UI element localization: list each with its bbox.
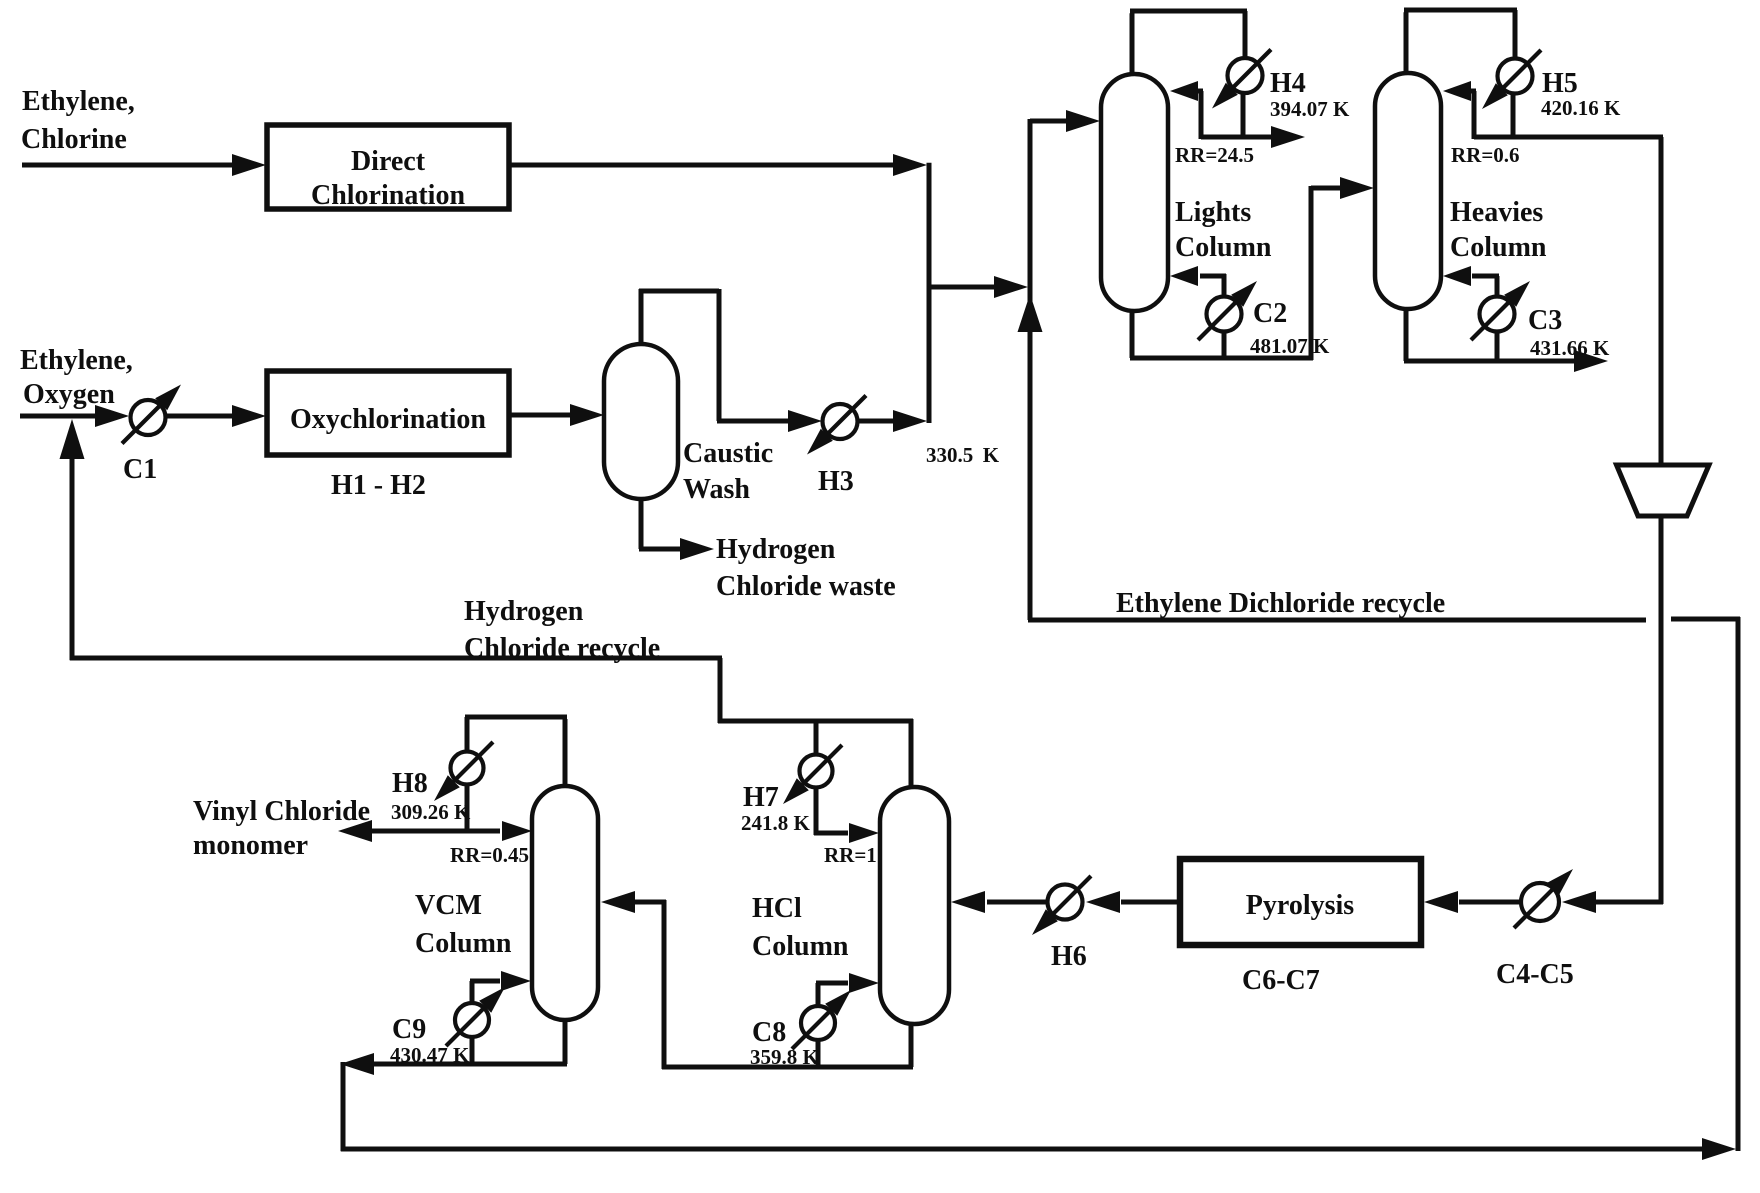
svg-text:C1: C1 <box>123 454 157 485</box>
wire Heavies overhead loop <box>1404 10 1517 139</box>
wire Pyrolysis outlet to H6 <box>1086 891 1180 913</box>
svg-text:H1 - H2: H1 - H2 <box>331 470 426 501</box>
cooler C4-C5 <box>1496 869 1574 990</box>
wire Heavies distillate to expander <box>1474 137 1663 465</box>
wire feed ethylene/oxygen into C1 <box>20 405 129 427</box>
svg-text:431.66 K: 431.66 K <box>1530 336 1610 360</box>
svg-text:430.47 K: 430.47 K <box>390 1043 470 1067</box>
wire H3 outlet to mix point <box>858 410 927 432</box>
column VCM Column <box>415 786 598 1020</box>
svg-text:Hydrogen: Hydrogen <box>716 534 836 565</box>
wire mix point to recycle junction <box>929 276 1028 298</box>
svg-text:Oxygen: Oxygen <box>23 379 115 410</box>
svg-text:H5: H5 <box>1542 68 1578 99</box>
wire Heavies bottoms out <box>1404 307 1608 372</box>
wire H7 reflux return <box>814 787 879 843</box>
wire C2 reboiler return <box>1170 266 1226 358</box>
stream label Hydrogen Chloride waste <box>716 534 896 602</box>
wire VCM bottoms to EDC recycle <box>340 617 1740 1160</box>
reactor Oxychlorination <box>267 371 509 455</box>
svg-text:394.07 K: 394.07 K <box>1270 97 1350 121</box>
wire H6 to HCl Column feed <box>951 891 1047 913</box>
svg-text:RR=0.6: RR=0.6 <box>1451 143 1520 167</box>
wire Direct Chlorination outlet to mix point <box>509 154 929 423</box>
svg-text:H6: H6 <box>1051 941 1087 972</box>
svg-text:Oxychlorination: Oxychlorination <box>290 404 486 435</box>
wire hydrogen chloride recycle line <box>60 419 914 790</box>
wire C8 reboiler return <box>816 973 879 1067</box>
svg-text:H7: H7 <box>743 782 779 813</box>
svg-text:RR=1: RR=1 <box>824 843 877 867</box>
wire Lights bottoms to Heavies feed <box>1130 177 1374 360</box>
svg-text:Lights: Lights <box>1175 197 1251 228</box>
svg-text:C9: C9 <box>392 1014 426 1045</box>
svg-text:Ethylene Dichloride recycle: Ethylene Dichloride recycle <box>1116 588 1445 619</box>
svg-text:Chloride waste: Chloride waste <box>716 571 896 602</box>
wire Oxychlorination outlet to Caustic Wash <box>509 404 604 426</box>
heater H6 <box>1032 876 1091 972</box>
reboiler C2 <box>1198 281 1287 340</box>
reboiler C8 <box>752 990 851 1049</box>
wire Heavies reflux return <box>1443 81 1476 139</box>
svg-text:Ethylene,: Ethylene, <box>20 345 133 376</box>
svg-text:H8: H8 <box>392 768 428 799</box>
svg-text:359.8 K: 359.8 K <box>750 1045 820 1069</box>
wire Caustic Wash bottoms <box>639 497 714 560</box>
reactor Direct Chlorination <box>267 125 509 211</box>
svg-text:Column: Column <box>1175 232 1272 263</box>
wire HCl bottoms to VCM feed <box>601 891 913 1069</box>
wire C3 reboiler return <box>1443 266 1499 361</box>
svg-text:Ethylene,: Ethylene, <box>22 86 135 117</box>
wire C1 to Oxychlorination <box>166 405 266 427</box>
wire expander outlet to C4-C5 <box>1562 516 1663 913</box>
svg-text:Column: Column <box>1450 232 1547 263</box>
wire Lights overhead loop <box>1130 11 1247 139</box>
reboiler C3 <box>1471 281 1562 340</box>
svg-text:Pyrolysis: Pyrolysis <box>1246 890 1354 921</box>
stream label Ethylene, Chlorine <box>21 86 135 155</box>
wire Lights reflux return <box>1170 81 1203 139</box>
svg-text:C2: C2 <box>1253 298 1287 329</box>
column HCl Column <box>752 787 949 1024</box>
heater H3 <box>807 396 866 498</box>
svg-text:C4-C5: C4-C5 <box>1496 959 1574 990</box>
stream label Vinyl Chloride monomer <box>193 796 370 861</box>
condenser H8 <box>392 742 493 801</box>
svg-text:309.26 K: 309.26 K <box>391 800 471 824</box>
svg-text:RR=0.45: RR=0.45 <box>450 843 529 867</box>
wire feed ethylene/chlorine into Direct Chlorination <box>22 154 266 176</box>
expander valve <box>1617 465 1710 516</box>
reactor Pyrolysis <box>1180 859 1421 945</box>
svg-text:241.8 K: 241.8 K <box>741 811 811 835</box>
svg-text:Chlorination: Chlorination <box>311 180 465 211</box>
column Heavies Column <box>1375 73 1547 309</box>
svg-text:Vinyl Chloride: Vinyl Chloride <box>193 796 370 827</box>
wire C9 reboiler return <box>470 971 531 1064</box>
condenser H7 <box>743 719 842 813</box>
label 330.5 K <box>926 443 1000 467</box>
svg-text:420.16 K: 420.16 K <box>1541 96 1621 120</box>
svg-text:Column: Column <box>415 928 512 959</box>
svg-text:Heavies: Heavies <box>1450 197 1543 228</box>
svg-text:C3: C3 <box>1528 305 1562 336</box>
label H1 - H2 <box>331 470 426 501</box>
svg-text:H3: H3 <box>818 466 854 497</box>
svg-text:Direct: Direct <box>351 146 426 177</box>
svg-text:Hydrogen: Hydrogen <box>464 596 584 627</box>
condenser H4 <box>1212 50 1306 109</box>
svg-text:330.5 K: 330.5 K <box>926 443 1000 467</box>
svg-text:H4: H4 <box>1270 68 1306 99</box>
reboiler C9 <box>392 987 505 1046</box>
svg-text:Column: Column <box>752 931 849 962</box>
svg-text:Chlorine: Chlorine <box>21 124 127 155</box>
svg-text:C6-C7: C6-C7 <box>1242 965 1320 996</box>
svg-text:RR=24.5: RR=24.5 <box>1175 143 1254 167</box>
svg-text:monomer: monomer <box>193 830 308 861</box>
wire C4-C5 to Pyrolysis <box>1424 891 1520 913</box>
vessel Caustic Wash <box>604 344 773 505</box>
column Lights Column <box>1101 74 1272 311</box>
stream label Hydrogen Chloride recycle <box>464 596 660 664</box>
cooler C1 <box>122 385 181 486</box>
wire junction riser to Lights Column feed <box>1018 110 1101 620</box>
svg-text:Wash: Wash <box>683 474 750 505</box>
wire VCM overhead loop <box>465 717 567 788</box>
stream label Ethylene, Oxygen <box>20 345 133 410</box>
svg-text:Caustic: Caustic <box>683 438 773 469</box>
svg-text:C8: C8 <box>752 1017 786 1048</box>
svg-text:VCM: VCM <box>415 890 482 921</box>
wire VCM distillate and reflux <box>338 784 532 842</box>
condenser H5 <box>1482 50 1578 109</box>
svg-text:481.07 K: 481.07 K <box>1250 334 1330 358</box>
svg-text:HCl: HCl <box>752 893 802 924</box>
wire Lights distillate out <box>1201 126 1305 148</box>
wire Caustic Wash overhead to H3 <box>639 289 822 432</box>
